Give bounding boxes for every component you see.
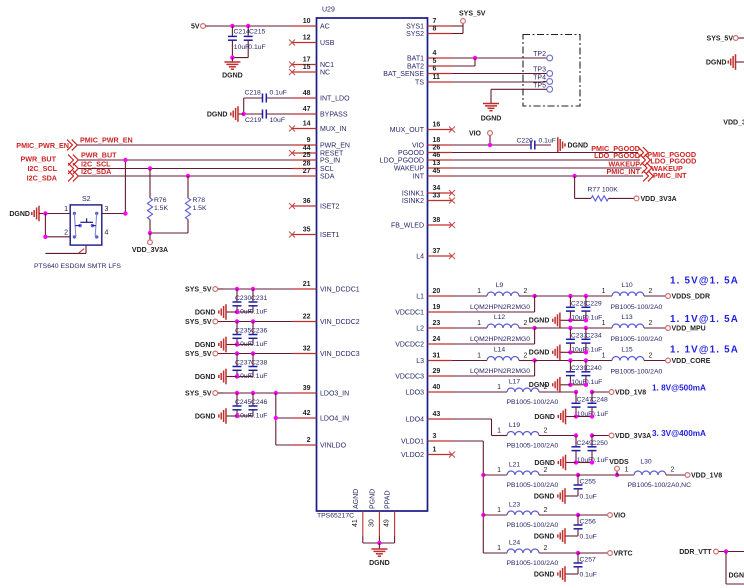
svg-text:TP5: TP5 — [533, 82, 546, 89]
svg-text:SYS_5V: SYS_5V — [185, 390, 212, 397]
svg-text:PB1005-100/2A0: PB1005-100/2A0 — [611, 336, 663, 343]
svg-text:11: 11 — [433, 74, 441, 81]
svg-text:1: 1 — [64, 206, 68, 213]
inductor L17 PB1005-100/2A0 — [452, 379, 576, 407]
pin 44 RESET of U29 — [289, 145, 344, 158]
resistor R76 1.5K — [147, 169, 168, 234]
wire PMIC_INT — [452, 175, 643, 177]
pin 41 AGND of U29 — [352, 489, 363, 536]
svg-text:PMIC_PWR_EN: PMIC_PWR_EN — [16, 141, 69, 150]
svg-text:AGND: AGND — [353, 489, 360, 509]
power terminal DDR_VTT — [679, 549, 744, 556]
junction at C234 bottom — [584, 350, 588, 354]
svg-text:5V: 5V — [191, 23, 200, 30]
svg-text:DGND: DGND — [534, 571, 555, 578]
svg-text:L21: L21 — [509, 462, 521, 469]
svg-text:BAT_SENSE: BAT_SENSE — [383, 71, 424, 78]
svg-text:49: 49 — [384, 519, 391, 527]
pin 33 ISINK2 of U29 — [402, 193, 455, 206]
wire 5V to pin AC — [209, 25, 293, 27]
svg-text:R76: R76 — [154, 197, 167, 204]
pin 46 LDO_PGOOD of U29 — [380, 152, 452, 165]
svg-text:VIN_DCDC1: VIN_DCDC1 — [320, 287, 360, 294]
svg-text:0.1uF: 0.1uF — [580, 494, 597, 501]
svg-text:24: 24 — [433, 336, 441, 343]
svg-text:C248: C248 — [592, 397, 608, 404]
ground DGND for C256 — [534, 528, 578, 544]
pin 3 VLDO1 of U29 — [401, 433, 452, 446]
svg-text:VDCDC3: VDCDC3 — [395, 374, 424, 381]
svg-text:1: 1 — [433, 447, 437, 454]
junction LDO4_IN tap — [274, 416, 278, 420]
junction at C240 bottom — [584, 383, 588, 387]
junction at C248 bottom — [590, 414, 594, 418]
wire WAKEUP — [452, 167, 642, 169]
svg-text:C231: C231 — [251, 295, 267, 302]
svg-text:31: 31 — [433, 353, 441, 360]
power terminal SYS_5V at y=289 — [185, 286, 223, 293]
svg-text:3: 3 — [105, 206, 109, 213]
junction at C245 top — [235, 391, 239, 395]
wire S2 pin3 to PWR_BUT net — [102, 160, 126, 214]
junction PMIC_INT tap — [572, 174, 576, 178]
svg-text:2: 2 — [649, 288, 653, 295]
inductor L19 PB1005-100/2A0 — [497, 422, 576, 450]
svg-text:16: 16 — [433, 122, 441, 129]
capacitor C245 10uF — [233, 393, 252, 420]
wire feedback to VDCDC pin — [452, 361, 535, 377]
svg-text:0.1uF: 0.1uF — [248, 44, 265, 51]
svg-text:BAT1: BAT1 — [407, 56, 424, 63]
svg-text:PTS640 ESDGM SMTR LFS: PTS640 ESDGM SMTR LFS — [34, 263, 121, 270]
svg-text:LDO3_IN: LDO3_IN — [320, 391, 349, 398]
junction VDDS tap — [615, 473, 619, 477]
pin 11 TS of U29 — [415, 74, 452, 87]
svg-text:1.5K: 1.5K — [193, 205, 207, 212]
pin 40 LDO3 of U29 — [406, 384, 452, 397]
pin 38 FB_WLED of U29 — [391, 217, 455, 230]
svg-text:L12: L12 — [494, 314, 506, 321]
svg-text:PB1005-100/2A0: PB1005-100/2A0 — [507, 399, 559, 406]
capacitor C219 10uF — [244, 110, 293, 124]
svg-text:DGND: DGND — [9, 211, 30, 218]
annotation 1. 1V@1. 5A — [670, 345, 739, 356]
svg-text:2: 2 — [544, 428, 548, 435]
ground DGND for C249/C250 — [534, 455, 576, 471]
wire LDO_PGOOD — [452, 159, 640, 161]
svg-text:SDA: SDA — [320, 174, 335, 181]
svg-text:VINLDO: VINLDO — [320, 443, 347, 450]
svg-text:SYS_5V: SYS_5V — [185, 319, 212, 326]
svg-text:SCL: SCL — [320, 166, 334, 173]
power terminal SYS_5V top — [459, 10, 486, 26]
svg-text:29: 29 — [433, 368, 441, 375]
ground DGND below TP5 — [481, 104, 502, 123]
svg-text:DGND: DGND — [706, 59, 727, 66]
capacitor C237 10uF — [233, 354, 252, 381]
capacitor C220 0.1uF — [517, 137, 556, 149]
inductor L9 LQM2HPN2R2MG0 — [452, 282, 535, 311]
junction C257 top — [576, 551, 580, 555]
svg-text:9: 9 — [307, 137, 311, 144]
wire PWR_BUT to pin PS_IN — [78, 159, 292, 161]
off-page connector I2C_SCL — [27, 159, 111, 174]
svg-text:L3: L3 — [416, 358, 424, 365]
svg-text:WAKEUP: WAKEUP — [394, 166, 424, 173]
wire SYS_5V row to chip — [223, 321, 293, 323]
pin 49 PPAD of U29 — [384, 490, 395, 536]
ground DGND for C235/C236 — [195, 337, 237, 353]
svg-text:2: 2 — [544, 545, 548, 552]
junction at C240 top — [584, 358, 588, 362]
pin 45 INT of U29 — [413, 168, 452, 181]
ground DGND below C214 — [222, 58, 243, 80]
wire L14 to L15 — [535, 360, 612, 362]
svg-text:27: 27 — [303, 168, 311, 175]
junction at C228 bottom — [568, 318, 572, 322]
wire LDO4 pin to L19 — [452, 419, 507, 436]
capacitor C257 0.1uF — [574, 553, 597, 579]
junction at C249 bottom — [574, 460, 578, 464]
ground DGND for C255 — [534, 488, 578, 504]
junction PWR_BUT tap — [123, 158, 127, 162]
svg-text:DGND: DGND — [369, 560, 390, 567]
ground DGND for C228/C229 — [529, 313, 571, 329]
off-page connector LDO_PGOOD — [594, 151, 696, 165]
power terminal VDD_MPU — [666, 325, 706, 332]
junction at C234 top — [584, 326, 588, 330]
junction C255 top — [576, 473, 580, 477]
annotation 3.3V@400mA — [652, 429, 706, 438]
svg-text:2: 2 — [671, 467, 675, 474]
svg-text:6: 6 — [433, 66, 437, 73]
svg-text:2: 2 — [524, 288, 528, 295]
svg-text:7: 7 — [433, 18, 437, 25]
svg-text:C255: C255 — [580, 479, 596, 486]
pin 26 PGOOD of U29 — [398, 145, 452, 158]
svg-text:SYS_5V: SYS_5V — [185, 351, 212, 358]
svg-text:25: 25 — [303, 152, 311, 159]
svg-text:1: 1 — [477, 288, 481, 295]
junction at PGND bus — [377, 541, 381, 545]
capacitor C214 10uF — [228, 26, 250, 58]
pin 1 VLDO2 of U29 — [401, 447, 455, 460]
svg-text:13: 13 — [433, 160, 441, 167]
svg-text:48: 48 — [303, 90, 311, 97]
svg-text:PWR_BUT: PWR_BUT — [81, 151, 117, 160]
junction trunk L23 — [481, 513, 485, 517]
junction at C239 bottom — [568, 383, 572, 387]
svg-text:L9: L9 — [496, 282, 504, 289]
svg-text:L10: L10 — [621, 282, 633, 289]
svg-text:DGND: DGND — [729, 573, 744, 580]
junction at S2 pin2 wire — [43, 235, 47, 239]
svg-text:ISET2: ISET2 — [320, 204, 340, 211]
junction at C239 top — [568, 358, 572, 362]
pin 14 MUX_IN of U29 — [289, 121, 346, 134]
svg-text:PB1005-100/2A0: PB1005-100/2A0 — [507, 522, 559, 529]
svg-text:PB1005-100/2A0,NC: PB1005-100/2A0,NC — [628, 482, 692, 489]
svg-text:C234: C234 — [585, 333, 601, 340]
ground DGND for C247/C248 — [534, 409, 576, 425]
svg-text:C238: C238 — [251, 360, 267, 367]
junction L12 output — [532, 326, 536, 330]
svg-text:DGND: DGND — [534, 533, 555, 540]
ground DGND right edge — [706, 54, 744, 70]
pin 21 VIN_DCDC1 of U29 — [293, 281, 360, 294]
test point enclosure box — [523, 35, 580, 107]
pin 7 SYS1 of U29 — [406, 18, 452, 31]
wire BAT1 to TP2 — [452, 57, 547, 59]
svg-text:PMIC_PWR_EN: PMIC_PWR_EN — [80, 136, 133, 145]
ground DGND for C237/C238 — [195, 369, 237, 385]
svg-text:DGND: DGND — [534, 493, 555, 500]
svg-text:VIO: VIO — [614, 512, 627, 519]
svg-text:37: 37 — [433, 248, 441, 255]
svg-text:TS: TS — [415, 80, 424, 87]
svg-text:0.1uF: 0.1uF — [250, 341, 267, 348]
svg-text:L4: L4 — [416, 254, 424, 261]
junction trunk L21 — [481, 473, 485, 477]
svg-text:4: 4 — [105, 229, 109, 236]
svg-text:17: 17 — [303, 57, 311, 64]
pin 35 ISET1 of U29 — [289, 227, 340, 240]
ground DGND bottom right (clipped) — [729, 573, 744, 580]
svg-text:BYPASS: BYPASS — [320, 112, 348, 119]
svg-text:5: 5 — [433, 58, 437, 65]
svg-text:PB1005-100/2A0: PB1005-100/2A0 — [507, 482, 559, 489]
svg-text:22: 22 — [303, 314, 311, 321]
junction at C231 top — [251, 287, 255, 291]
svg-text:L19: L19 — [509, 422, 521, 429]
junction at C214 top — [230, 24, 234, 28]
svg-text:C236: C236 — [251, 328, 267, 335]
svg-text:1: 1 — [497, 507, 501, 514]
svg-text:I2C_SCL: I2C_SCL — [27, 164, 57, 173]
svg-text:33: 33 — [433, 193, 441, 200]
svg-text:DGND: DGND — [534, 414, 555, 421]
capacitor C230 10uF — [233, 289, 252, 316]
power terminal SYS_5V at y=321.5 — [185, 319, 223, 326]
junction S2 pin3 corner — [123, 211, 127, 215]
svg-text:VIN_DCDC3: VIN_DCDC3 — [320, 351, 360, 358]
svg-text:C229: C229 — [585, 301, 601, 308]
svg-text:39: 39 — [303, 385, 311, 392]
svg-text:MUX_IN: MUX_IN — [320, 126, 346, 133]
svg-text:PB1005-100/2A0: PB1005-100/2A0 — [507, 443, 559, 450]
svg-text:1. 1V@1. 5A: 1. 1V@1. 5A — [670, 345, 739, 356]
svg-text:VDCDC1: VDCDC1 — [395, 310, 424, 317]
svg-text:LDO_PGOOD: LDO_PGOOD — [380, 158, 424, 165]
svg-text:ISET1: ISET1 — [320, 232, 340, 239]
svg-text:INT: INT — [413, 174, 425, 181]
pin 10 AC of U29 — [293, 18, 330, 31]
svg-text:C257: C257 — [580, 557, 596, 564]
pin 29 VDCDC3 of U29 — [395, 368, 452, 381]
svg-text:LDO3: LDO3 — [406, 390, 424, 397]
junction at C250 bottom — [590, 460, 594, 464]
inductor L30 PB1005-100/2A0,NC — [617, 458, 691, 489]
power terminal VDD_3V3A output — [609, 433, 651, 440]
svg-text:C214: C214 — [234, 29, 250, 36]
svg-text:4: 4 — [433, 50, 437, 57]
svg-text:C240: C240 — [585, 365, 601, 372]
svg-text:VIO: VIO — [412, 143, 425, 150]
power terminal VDD_1V8 right — [685, 472, 722, 479]
pin 34 ISINK1 of U29 — [402, 185, 455, 198]
capacitor C235 10uF — [233, 322, 252, 349]
svg-text:0.1uF: 0.1uF — [250, 413, 267, 420]
junction at C249 top — [574, 433, 578, 437]
pin 43 LDO4 of U29 — [406, 411, 452, 424]
svg-text:1: 1 — [497, 545, 501, 552]
pin 20 L1 of U29 — [416, 288, 452, 301]
svg-text:VIO: VIO — [469, 130, 482, 137]
ground DGND for C239/C240 — [529, 377, 571, 393]
svg-text:VLDO2: VLDO2 — [401, 452, 424, 459]
junction L14 output — [532, 358, 536, 362]
svg-text:1: 1 — [477, 320, 481, 327]
test point TP4 — [533, 74, 552, 84]
svg-text:VDD_1V8: VDD_1V8 — [691, 472, 722, 479]
wire I2C_SDA to pin SDA — [78, 175, 292, 177]
svg-text:1: 1 — [602, 288, 606, 295]
switch S2 PTS640 — [34, 196, 121, 270]
svg-text:VDDS: VDDS — [609, 459, 629, 466]
junction DDR_VTT — [724, 549, 728, 553]
wire feedback to VDCDC pin — [452, 328, 535, 344]
svg-text:C246: C246 — [251, 399, 267, 406]
svg-text:DGND: DGND — [529, 350, 550, 357]
wire SYS_5V row to chip — [223, 288, 293, 290]
ground DGND left of C219 — [207, 106, 244, 122]
svg-text:TP4: TP4 — [533, 74, 546, 81]
wire AGND/PGND/PPAD bus — [363, 536, 395, 543]
pin 4 BAT1 of U29 — [407, 50, 452, 63]
svg-text:ISINK1: ISINK1 — [402, 191, 424, 198]
annotation 1. 5V@1. 5A — [670, 276, 739, 287]
svg-text:LQM2HPN2R2MG0: LQM2HPN2R2MG0 — [470, 368, 530, 375]
resistor R78 1.5K — [185, 176, 207, 233]
svg-text:MUX_OUT: MUX_OUT — [390, 127, 425, 134]
wire I2C_SCL to pin SCL — [78, 168, 292, 170]
svg-text:30: 30 — [368, 519, 375, 527]
inductor L14 LQM2HPN2R2MG0 — [452, 347, 535, 376]
wire PMIC_PGOOD — [452, 152, 638, 154]
svg-text:S2: S2 — [82, 196, 91, 203]
svg-text:12: 12 — [303, 35, 311, 42]
svg-text:1: 1 — [497, 467, 501, 474]
pin 6 BAT_SENSE of U29 — [383, 66, 452, 79]
capacitor C248 0.1uF — [576, 392, 608, 418]
svg-text:34: 34 — [433, 185, 441, 192]
power terminal 5V — [191, 23, 209, 30]
off-page connector PMIC_PGOOD — [591, 144, 696, 159]
svg-text:LQM2HPN2R2MG0: LQM2HPN2R2MG0 — [470, 304, 530, 311]
ground DGND for C230/C231 — [195, 304, 237, 320]
junction at C245 bottom — [235, 414, 239, 418]
junction at C246 top — [251, 391, 255, 395]
svg-text:PB1005-100/2A0: PB1005-100/2A0 — [611, 304, 663, 311]
svg-text:0.1uF: 0.1uF — [580, 534, 597, 541]
svg-text:VDD_3V3A: VDD_3V3A — [615, 433, 651, 440]
wire S2 stem to pin2 branch — [45, 245, 86, 253]
svg-text:DGND: DGND — [534, 460, 555, 467]
svg-text:VRTC: VRTC — [614, 550, 633, 557]
power terminal VDD_3V3A below R76 — [132, 233, 168, 254]
pin 25 PS_IN of U29 — [293, 152, 341, 165]
svg-text:L15: L15 — [621, 347, 633, 354]
svg-text:43: 43 — [433, 411, 441, 418]
test point TP3 — [533, 66, 552, 76]
svg-text:PGOOD: PGOOD — [398, 150, 424, 157]
svg-text:DGND: DGND — [195, 374, 216, 381]
svg-text:R78: R78 — [193, 197, 206, 204]
svg-text:21: 21 — [303, 281, 311, 288]
pin 32 VIN_DCDC3 of U29 — [293, 346, 360, 359]
svg-text:VDD_CORE: VDD_CORE — [672, 358, 711, 365]
capacitor C250 0.1uF — [576, 436, 608, 464]
svg-text:L23: L23 — [509, 502, 521, 509]
svg-text:TP3: TP3 — [533, 66, 546, 73]
svg-text:2: 2 — [544, 467, 548, 474]
junction at C233 bottom — [568, 350, 572, 354]
svg-text:2: 2 — [649, 353, 653, 360]
svg-text:DGND: DGND — [481, 116, 502, 123]
ground DGND for C245/C246 — [195, 408, 237, 424]
inductor L21 PB1005-100/2A0 — [483, 462, 578, 490]
wire PMIC_PWR_EN to pin PWR_EN — [77, 144, 292, 146]
svg-text:L30: L30 — [640, 458, 652, 465]
junction at C236 top — [251, 319, 255, 323]
pin 23 L2 of U29 — [416, 320, 452, 333]
svg-text:2: 2 — [544, 507, 548, 514]
svg-text:C237: C237 — [235, 360, 251, 367]
svg-text:10uF: 10uF — [270, 117, 286, 124]
svg-text:SYS2: SYS2 — [406, 31, 424, 38]
svg-text:AC: AC — [320, 24, 330, 31]
junction at C235 bottom — [235, 342, 239, 346]
power terminal VRTC — [608, 550, 633, 557]
svg-text:PWR_BUT: PWR_BUT — [20, 155, 56, 164]
svg-text:DGND: DGND — [195, 413, 216, 420]
svg-text:VDCDC2: VDCDC2 — [395, 342, 424, 349]
svg-text:USB: USB — [320, 40, 335, 47]
svg-text:INT_LDO: INT_LDO — [320, 96, 350, 103]
wire L17 to VDD_1V8 — [592, 391, 609, 393]
wire DGND branch to S2 pin2 — [45, 214, 70, 237]
pin 16 MUX_OUT of U29 — [390, 122, 455, 135]
svg-text:C245: C245 — [235, 399, 251, 406]
capacitor C236 0.1uF — [237, 322, 267, 349]
junction C256 top — [576, 513, 580, 517]
svg-text:DGND: DGND — [529, 318, 550, 325]
svg-text:2: 2 — [524, 320, 528, 327]
svg-text:RESET: RESET — [320, 151, 344, 158]
svg-text:SYS1: SYS1 — [406, 24, 424, 31]
test point TP2 — [533, 51, 552, 61]
svg-text:C220: C220 — [517, 137, 533, 144]
pin 22 VIN_DCDC2 of U29 — [293, 314, 360, 327]
svg-text:VDD_MPU: VDD_MPU — [672, 325, 706, 332]
inductor L15 PB1005-100/2A0 — [602, 347, 666, 376]
svg-text:1.5K: 1.5K — [154, 205, 168, 212]
pin 31 L3 of U29 — [416, 353, 452, 366]
svg-text:3: 3 — [433, 433, 437, 440]
off-page connector PMIC_PWR_EN — [16, 136, 132, 151]
junction at C214 bottom — [230, 55, 234, 59]
power terminal VDDS — [609, 459, 629, 475]
